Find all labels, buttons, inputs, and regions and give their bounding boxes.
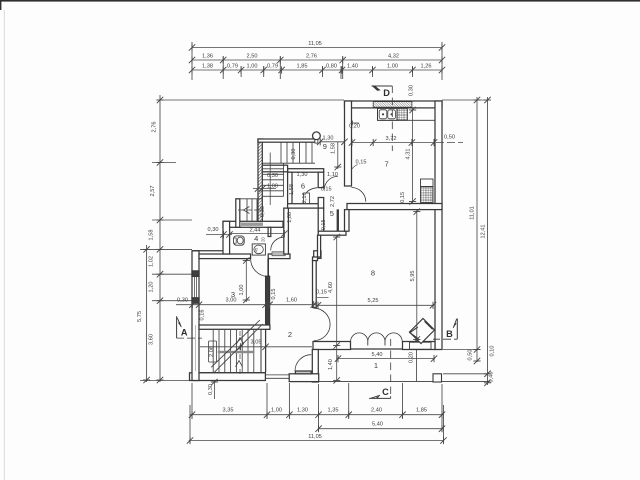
band top line [192,250,226,252]
landing dim line 0.30 [253,188,276,190]
top chain extension lines [191,42,193,80]
flight B risers [247,199,257,221]
scan edge top [0,0,640,2]
flight C diagonal B [214,324,263,373]
svg-text:1,10: 1,10 [327,172,338,178]
svg-text:0,79: 0,79 [267,64,278,70]
sink unit [378,108,398,120]
room 8 bottom wall right segment [403,342,436,350]
svg-text:0,10: 0,10 [490,346,496,357]
svg-text:0,30: 0,30 [177,297,188,303]
svg-text:0,80: 0,80 [326,64,337,70]
wc right wall upper [268,227,271,236]
landing dim vline [269,153,271,206]
svg-text:5,25: 5,25 [368,298,379,304]
stair edge lines [265,329,267,372]
entrance diamond arrow [410,319,435,344]
svg-text:0,30: 0,30 [260,206,266,217]
stair tower hatched wall [258,139,262,221]
room6 door leaf box [304,193,310,204]
svg-text:1,85: 1,85 [416,408,427,414]
divider wall upper [318,235,321,257]
flight B left wall [236,199,240,228]
entry dim 1.58 vline [337,142,339,169]
svg-text:1,38: 1,38 [202,64,213,70]
svg-text:0,20: 0,20 [349,123,360,129]
scan edge left [0,0,1,10]
sink drain dots [382,113,384,115]
kitchen left wall [345,101,352,186]
svg-text:9: 9 [323,142,327,151]
section D line [391,86,393,151]
wc dim 0.30 [206,234,232,236]
svg-text:2: 2 [288,330,292,339]
section B arrow [456,318,458,339]
svg-text:2,06: 2,06 [209,346,215,357]
svg-text:1,60: 1,60 [287,212,293,223]
left dim chain line [159,95,161,382]
entrance door opening [410,342,432,349]
divider 0.15 leader [317,297,329,299]
svg-text:3: 3 [231,290,235,299]
flight C diagonal A [211,320,260,367]
bottom dim chain row 2 (5.40) [319,428,444,430]
left wall pier lower [192,298,199,303]
svg-text:0,30: 0,30 [409,85,415,96]
upper flight tread edge [283,163,285,196]
svg-text:0,40: 0,40 [489,372,495,383]
room8 dim 5.25 [316,304,434,306]
svg-text:1,58: 1,58 [289,184,295,195]
corridor door arc [324,176,338,189]
double swing door arcs [314,308,330,340]
svg-text:4,32: 4,32 [388,54,399,60]
svg-text:5,95: 5,95 [410,271,416,282]
stair 2.06 dim box [209,341,217,362]
flight C risers [213,330,254,373]
room3 bottom wall [199,325,270,329]
porch slab edge [318,380,489,382]
svg-text:5,40: 5,40 [372,422,383,428]
kitchen dim 0.20 bracket [352,121,360,126]
right dim chain inner 11.01 [476,97,478,362]
toilet [234,236,245,245]
svg-text:1,58: 1,58 [149,230,155,241]
kitchen window dim 3.72 [352,142,434,144]
svg-text:1,30: 1,30 [297,172,308,178]
upper flight treads (descending) [262,169,283,197]
flight C bottom edge [199,371,266,373]
svg-text:2,76: 2,76 [152,122,158,133]
svg-text:0,15: 0,15 [316,290,327,296]
room6 left wall [288,172,292,205]
svg-text:B: B [446,329,453,339]
bottom dim chain row 3 (11.05) [189,440,444,442]
svg-text:2,57: 2,57 [150,186,156,197]
left chain extension lines [160,99,344,101]
svg-text:6: 6 [301,182,305,191]
svg-text:C: C [382,387,389,397]
column [313,132,321,140]
svg-text:1,36: 1,36 [202,54,213,60]
garden door step lines [265,374,289,376]
svg-text:2,16: 2,16 [302,192,308,203]
washbasin [252,244,265,255]
entrance arrow barbs [410,327,419,339]
bottom wall dim ext 0.30 [213,381,215,400]
svg-text:2,40: 2,40 [371,408,382,414]
svg-text:3,35: 3,35 [223,408,234,414]
room6 bottom wall [288,204,323,208]
svg-text:1,00: 1,00 [271,408,282,414]
entry landing band [262,165,287,172]
svg-text:1,40: 1,40 [347,64,358,70]
svg-text:4,31: 4,31 [406,149,412,160]
kitchen 0.15 leader [352,165,358,170]
flight C chevron up1 [237,338,244,344]
porch dim 5.40 [337,358,435,360]
svg-text:0,16: 0,16 [200,310,206,321]
section A arrow [176,316,178,338]
svg-text:8: 8 [371,269,375,278]
svg-text:4,60: 4,60 [328,282,334,293]
svg-text:1,00: 1,00 [267,184,278,190]
kitchen counter front edge [378,108,436,120]
porch left wall [312,350,318,383]
top dim chain row B line [192,59,442,61]
svg-text:3,05: 3,05 [251,340,262,346]
svg-text:2,76: 2,76 [306,54,317,60]
top wall window hatched band [373,102,412,108]
right dim chain outer 12.41 [487,97,489,385]
svg-text:7: 7 [385,160,389,169]
svg-text:0,15: 0,15 [400,192,406,203]
french door arc 2 [368,333,385,342]
svg-text:3,72: 3,72 [386,136,397,142]
svg-text:11,01: 11,01 [470,206,476,220]
left outer dim chain 5.75 [146,245,148,382]
wc left wall [223,221,230,254]
right chain extension lines [442,99,489,101]
svg-text:4: 4 [254,234,258,243]
svg-text:0,15: 0,15 [321,219,327,230]
french door arc 1 [351,333,368,342]
flight B walk line [238,209,260,211]
wc door arc [271,237,284,250]
svg-text:20: 20 [261,237,266,242]
section A line [177,337,202,339]
kitchen dim 4.31 [412,108,414,204]
bottom-left block bottom wall [190,373,266,381]
svg-text:1,00: 1,00 [247,64,258,70]
room6 right wall upper [318,172,324,187]
svg-text:11,05: 11,05 [308,41,322,47]
corridor right wall [345,210,350,232]
svg-text:5,75: 5,75 [137,311,143,322]
svg-text:1,00: 1,00 [387,64,398,70]
flight B top line [236,198,262,200]
stair tower top wall band [258,139,315,142]
svg-text:45: 45 [255,248,259,252]
svg-text:5: 5 [330,209,334,218]
svg-text:1,30: 1,30 [323,135,334,141]
room3 door leaf [267,259,269,277]
left wall window lines [193,276,195,297]
divider wall lower [313,261,317,308]
svg-text:0,79: 0,79 [227,64,238,70]
left wall mid line [195,325,197,371]
svg-text:0,15: 0,15 [271,289,277,300]
svg-text:0,30: 0,30 [267,173,278,179]
entry flight risers [281,142,312,163]
room3 door arc [251,259,269,277]
stair dim 3.05 line [200,346,312,348]
section D arrow [372,85,393,87]
wc top wall [223,221,283,227]
divider wall top cap [314,251,321,259]
svg-text:1,85: 1,85 [297,64,308,70]
svg-text:1,58: 1,58 [331,143,337,154]
svg-text:1,40: 1,40 [328,359,334,370]
room6 door arc [306,188,317,193]
sink bowl left [379,110,387,119]
room3/wc band wall right part [268,254,290,259]
bottom chain extension lines [189,405,191,443]
flight B arrow chevron [244,207,250,214]
left exterior wall [192,251,199,381]
svg-text:0,50: 0,50 [444,135,455,141]
flue block hatched [421,187,434,203]
svg-text:1,00: 1,00 [239,285,245,296]
room8 dim 5.95 [416,210,418,342]
landing edge line [262,162,315,164]
flight C walk line dashes [239,331,241,374]
svg-text:1,02: 1,02 [149,256,155,267]
svg-text:1,30: 1,30 [297,408,308,414]
french door threshold [351,348,403,350]
svg-text:3,60: 3,60 [149,334,155,345]
svg-text:2,50: 2,50 [247,54,258,60]
svg-text:0,15: 0,15 [321,187,332,193]
svg-text:1,20: 1,20 [149,282,155,293]
section B line [433,338,457,340]
section C arrow [369,397,391,399]
svg-text:1,35: 1,35 [328,408,339,414]
svg-text:1,60: 1,60 [286,297,297,303]
svg-text:0,30: 0,30 [208,227,219,233]
room2 dim 1.00 vline [245,259,247,302]
entry dim 1.30 [320,141,344,143]
wc dim 2.44 [230,233,285,235]
right exterior wall [435,101,442,350]
section C line [390,339,392,398]
kitchen block top exterior wall [345,101,443,108]
porch right ext vline [416,350,418,381]
svg-text:5,40: 5,40 [372,352,383,358]
divider wall jog [313,257,318,261]
room2 door arc [295,355,311,371]
svg-text:A: A [181,327,188,337]
french door arc 3 [385,333,402,342]
kitchen door arc [352,188,366,202]
sink hatched drainer [397,108,408,120]
svg-text:2,44: 2,44 [250,227,261,233]
dim line 4.60/1.40 [336,235,338,381]
svg-text:12,41: 12,41 [481,225,487,239]
closet thin wall [337,210,339,232]
svg-text:2,72: 2,72 [330,196,336,207]
svg-text:D: D [383,88,390,98]
wc door threshold gray [272,252,285,256]
room6 top wall [288,169,324,173]
room 8 bottom wall left segment [313,342,351,350]
svg-text:1,26: 1,26 [421,64,432,70]
bottom dim chain row 1 [190,414,444,416]
flue block white [421,179,434,187]
bottom door wall piece [289,374,319,382]
dim 0.50 dash right [436,142,463,144]
left wall pier upper [192,271,199,277]
lobby right wall [284,208,289,254]
kitchen bottom wall [347,204,442,210]
corridor turn wall [318,231,346,235]
stair landing bar [218,351,255,353]
french door leaf ticks [368,342,385,346]
room 2 door leaf [295,371,311,374]
svg-text:1: 1 [374,361,378,370]
svg-text:0,30: 0,30 [291,149,297,160]
room3 right wall (solid) [266,276,270,329]
svg-text:0,50: 0,50 [468,350,474,361]
room3/wc band wall left part [199,254,251,259]
flight C chevron up2 [236,361,243,367]
porch corner square [433,374,442,382]
room6 right wall lower [318,198,324,209]
top dim chain row C line [192,69,442,71]
sink bowl right [388,110,396,119]
svg-text:0,15: 0,15 [356,159,367,165]
svg-text:11,05: 11,05 [308,434,322,440]
svg-text:0,20: 0,20 [409,352,415,363]
corridor left wall [318,208,324,231]
room3 dim line [176,304,316,306]
top dim chain row A line 11.05 [192,47,442,49]
svg-text:0,30: 0,30 [208,384,214,395]
